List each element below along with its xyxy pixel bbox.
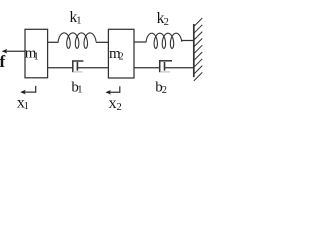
label k2 (157, 10, 169, 28)
svg-text:1: 1 (34, 52, 39, 63)
damper b2 cylinder top wall (159, 60, 172, 62)
damper b2 piston rod to wall (165, 67, 195, 69)
damper b2 piston (164, 62, 166, 71)
damper b1 cylinder bottom wall (faint) (73, 71, 83, 73)
label x2 (109, 95, 122, 113)
label f (force) (0, 52, 6, 71)
x1 reference arrow polyline (24, 86, 36, 92)
x2 arrowhead (105, 90, 111, 95)
svg-text:f: f (0, 52, 6, 71)
label b2 (155, 79, 167, 96)
wire m2 to damper b2 (134, 67, 160, 69)
label m1 (25, 46, 39, 63)
force arrow line (6, 50, 26, 52)
wall hatches (194, 18, 203, 81)
label m2 (109, 46, 124, 62)
label k1 (70, 9, 82, 27)
spring k1 coil (58, 33, 96, 48)
wire m1 to damper b1 (48, 67, 73, 69)
force arrowhead (2, 49, 8, 54)
wire m1 to spring k1 (48, 41, 59, 43)
wire spring k2 to wall (182, 40, 195, 42)
x2 reference arrow polyline (109, 86, 120, 92)
svg-text:2: 2 (119, 52, 124, 63)
damper b1 cylinder left wall (72, 60, 74, 72)
svg-text:x: x (109, 95, 117, 112)
mass m2 box (108, 29, 134, 78)
x1 arrowhead (20, 90, 26, 95)
damper b2 cylinder left wall (159, 60, 161, 72)
label x1 (17, 94, 29, 112)
svg-text:2: 2 (164, 17, 169, 28)
damper b1 piston (76, 62, 78, 71)
damper b1 cylinder top wall (72, 60, 83, 62)
wire spring k1 to m2 (96, 41, 109, 43)
svg-text:1: 1 (24, 101, 29, 112)
mass m1 box (25, 29, 48, 78)
damper b1 piston rod to m2 (77, 67, 108, 69)
label b1 (71, 80, 82, 96)
svg-text:1: 1 (77, 85, 82, 96)
svg-text:2: 2 (162, 85, 167, 96)
wire m2 to spring k2 (134, 41, 146, 43)
svg-text:2: 2 (117, 102, 122, 113)
wall line (193, 24, 195, 77)
spring k2 coil (146, 33, 182, 48)
damper b2 cylinder bottom wall (faint) (160, 71, 170, 73)
svg-text:1: 1 (76, 16, 81, 27)
